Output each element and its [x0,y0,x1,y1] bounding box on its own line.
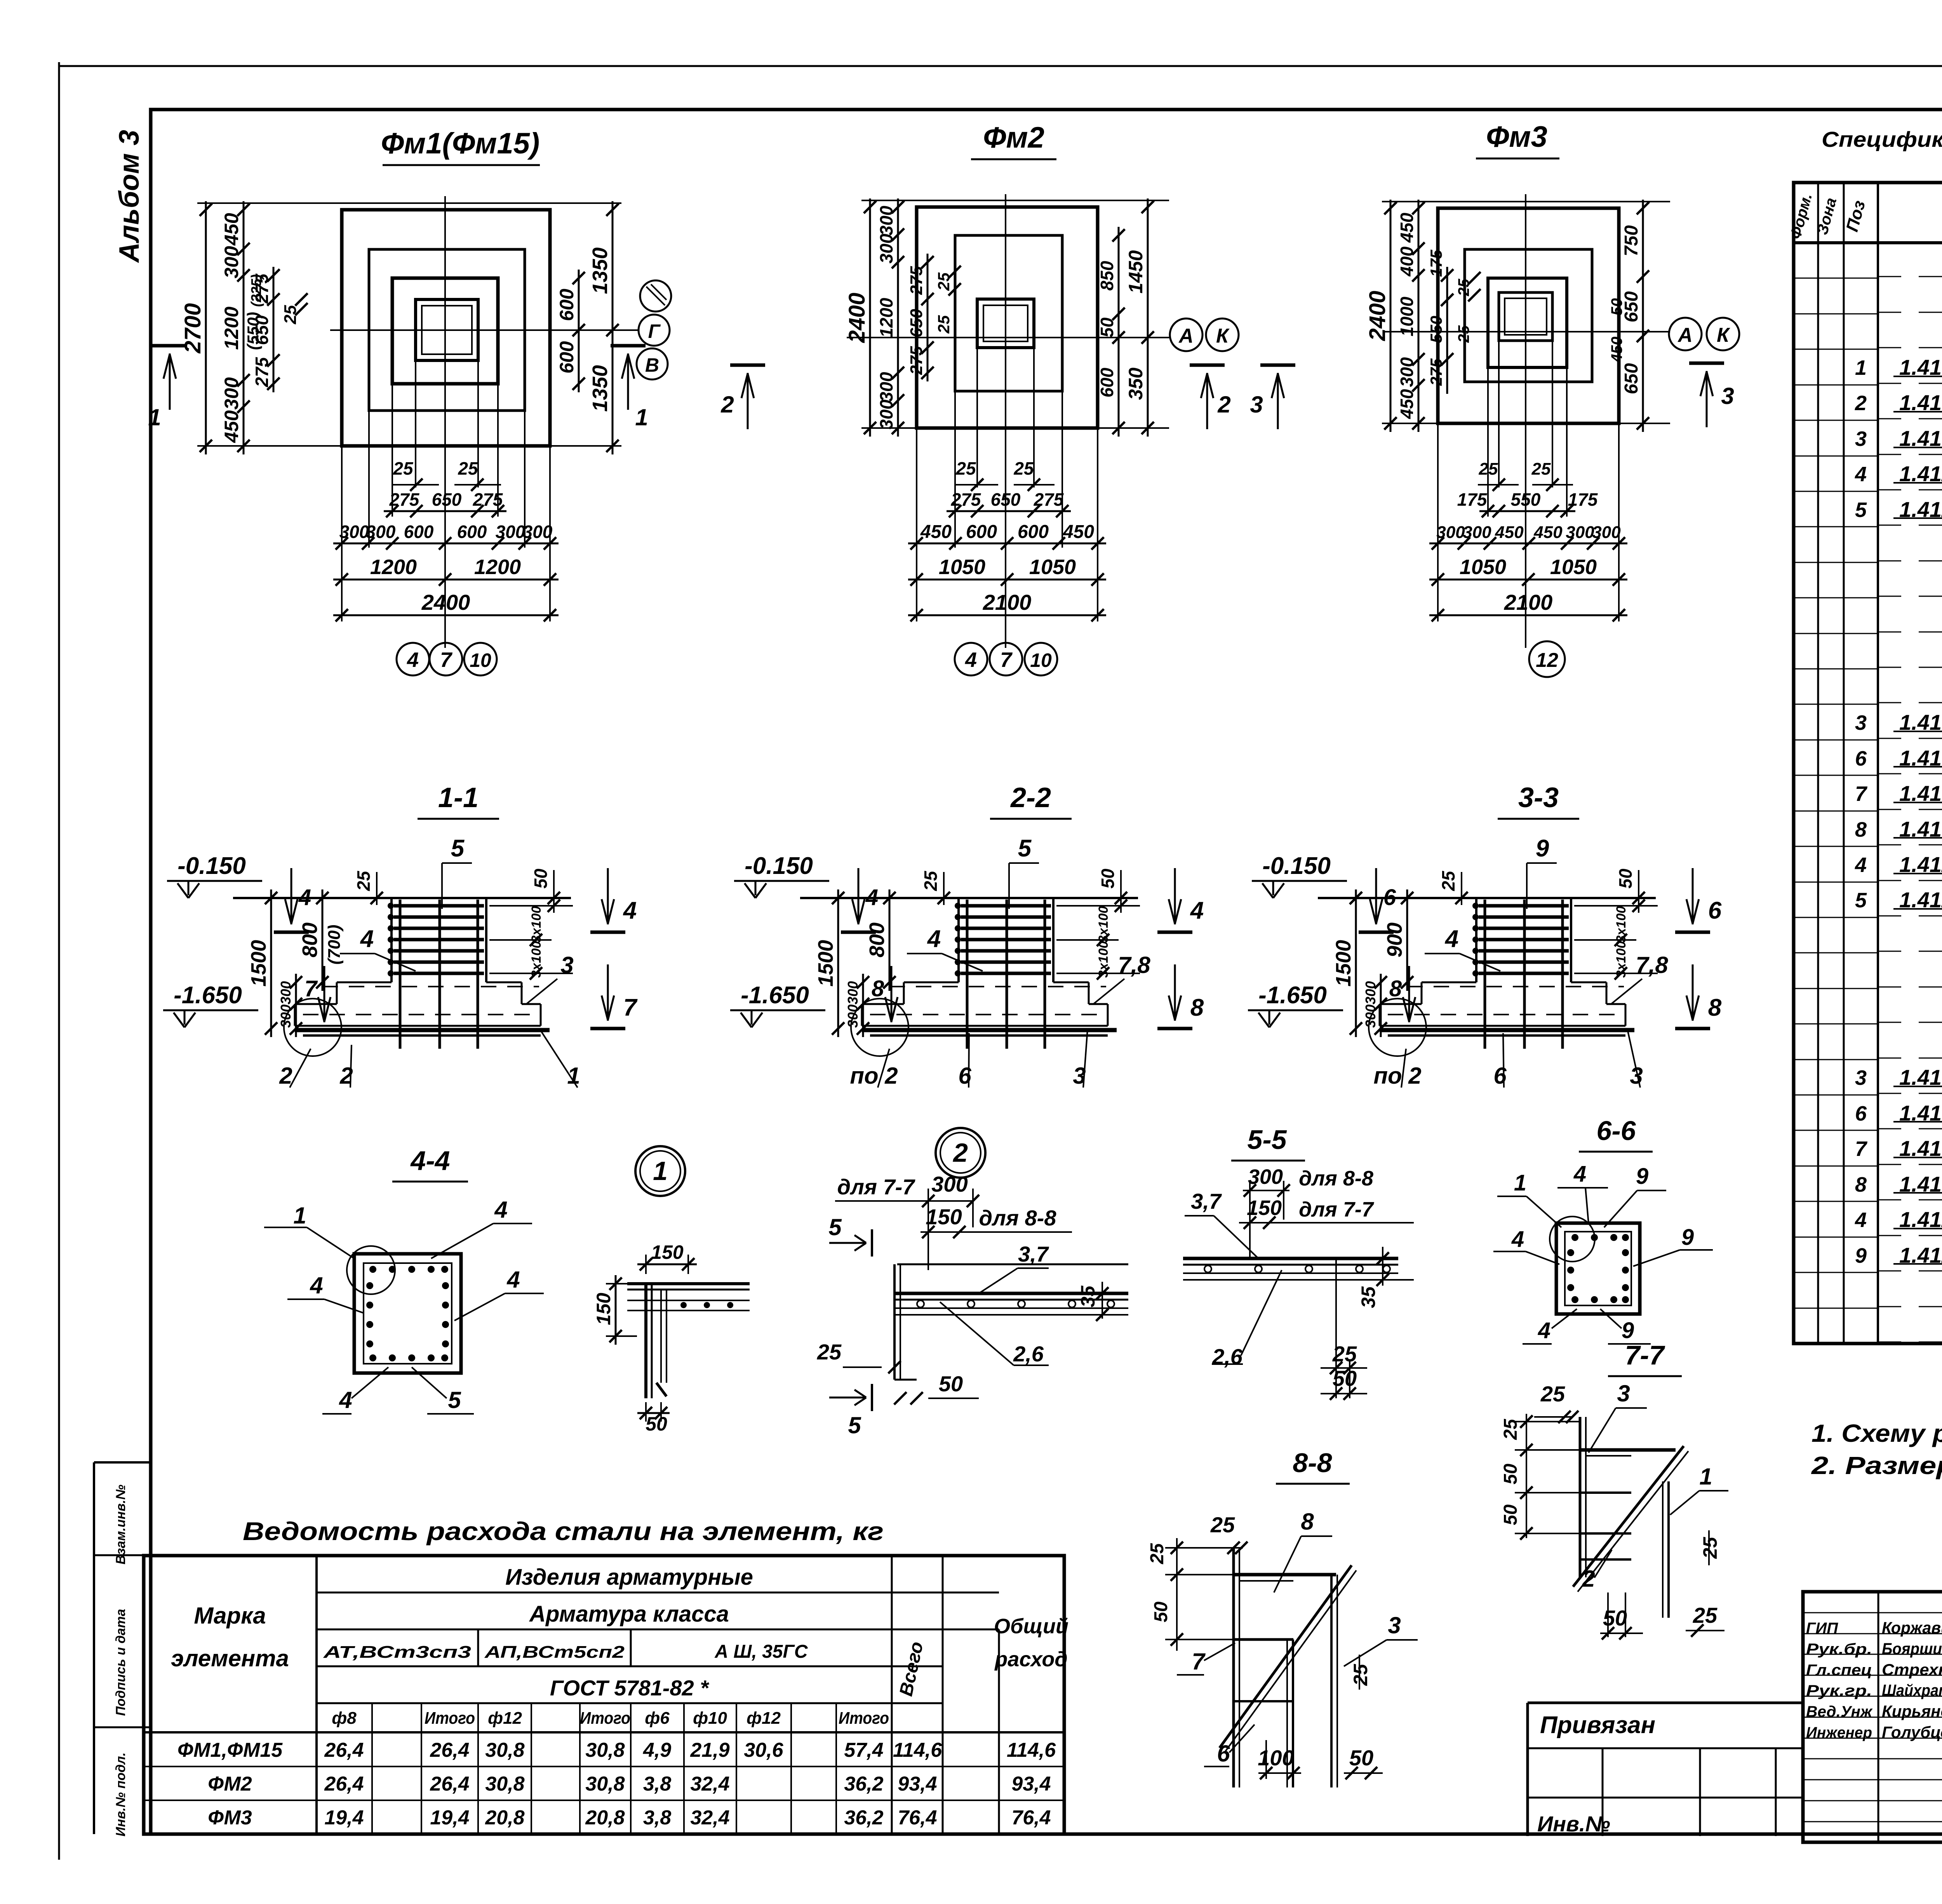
spec row 15 [1794,740,1878,741]
svg-text:2100: 2100 [983,590,1032,614]
section 3-3 right extension lines [1574,905,1658,907]
spec row 14 [1794,704,1878,705]
detail 6-6 outer box [1556,1223,1640,1314]
spec row 28 [1794,1201,1878,1202]
plan FM2 section marker 2 right [1206,373,1208,429]
svg-text:5: 5 [848,1412,861,1438]
svg-text:650: 650 [432,489,462,510]
svg-text:26,4: 26,4 [430,1739,469,1761]
svg-text:-0.150: -0.150 [1262,853,1331,879]
svg-text:26,4: 26,4 [324,1773,364,1795]
svg-text:32,4: 32,4 [690,1807,729,1829]
section 3-3 column rebars [1484,900,1486,1049]
section 1-1 dim 300 300 [295,974,297,1037]
plan FM2 bottom dim 1050-1050 [908,579,1106,581]
svg-text:50: 50 [1349,1746,1373,1770]
svg-text:Итого: Итого [580,1709,630,1728]
plan FM1 right dim 1350-1350 [612,201,614,454]
svg-text:300: 300 [1248,1165,1283,1189]
svg-text:Итого: Итого [839,1709,889,1728]
section 1-1 dim 1500 [270,889,272,1037]
section 2-2 marker bottom right 8 [1174,964,1176,1021]
svg-text:Г: Г [648,320,661,342]
svg-text:150: 150 [593,1293,614,1325]
plan FM3 bottom dim 1050-1050 [1429,579,1627,581]
svg-text:Бояршинов: Бояршинов [1882,1639,1942,1658]
svg-text:7: 7 [1000,648,1013,672]
steel table outer frame [144,1556,1064,1834]
plan FM1 left dim 2700 [205,201,207,454]
plan FM1 bottom extension line [197,445,621,447]
svg-text:3: 3 [1855,1066,1867,1089]
svg-text:300: 300 [523,522,553,542]
steel table vertical lines [315,1556,318,1834]
detail 4-4 outer box [354,1254,461,1373]
section 3-3 marker top right 6 [1692,868,1694,924]
plan FM2 bottom grid circles 4 7 10 [955,643,987,675]
plan FM1 bottom dim 2400 [333,614,559,616]
svg-text:4: 4 [1855,463,1867,486]
plan FM1 section marker 1 right [627,353,629,410]
section 1-1 marker top right 4 [607,868,609,924]
svg-text:Голубцова: Голубцова [1882,1723,1942,1741]
svg-text:-0.150: -0.150 [177,853,246,879]
svg-text:35: 35 [1357,1286,1379,1308]
section 3-3 dim 300 300 [1380,974,1382,1037]
svg-text:36,2: 36,2 [844,1807,883,1829]
svg-text:450: 450 [221,213,242,246]
detail 7-7 rungs [1580,1448,1676,1452]
svg-text:275: 275 [907,266,926,295]
plan FM3 column [1499,292,1552,341]
svg-text:30,8: 30,8 [585,1773,625,1795]
svg-text:ф10: ф10 [693,1709,727,1728]
spec row 10 [1794,562,1878,563]
detail 6-6 corner circle [1550,1217,1595,1262]
section 2-2 footing bottom slab [862,1003,904,1005]
plan FM2 column [977,299,1034,348]
detail 2 arrow 5 top [829,1242,866,1244]
section 3-3 marker top left [1375,868,1377,924]
spec row 16 [1794,775,1878,776]
svg-text:3,7: 3,7 [1191,1189,1222,1213]
svg-text:50: 50 [1608,298,1625,316]
plan FM3 right chain 750-650 [1642,200,1644,432]
plan FM3 bottom dim 300-300-450-450-300-300 [1429,543,1627,545]
plan FM2 left chain 275-650-275 [927,254,929,381]
detail 8-8 rungs [1234,1573,1336,1577]
section 2-2 footing middle step [904,982,959,983]
plan FM1 bottom dim 1200-1200 [333,579,559,581]
svg-text:4: 4 [339,1387,352,1413]
svg-text:19,4: 19,4 [324,1807,364,1829]
svg-text:8: 8 [872,976,884,1001]
svg-text:32,4: 32,4 [690,1773,729,1795]
svg-text:Марка: Марка [194,1603,266,1629]
svg-text:1450: 1450 [1125,250,1147,293]
svg-text:5: 5 [828,1214,842,1240]
svg-text:4: 4 [1511,1227,1524,1252]
svg-text:900: 900 [1383,922,1406,957]
svg-text:50: 50 [1151,1601,1171,1622]
svg-text:7: 7 [1855,782,1868,806]
svg-text:275: 275 [907,346,926,375]
svg-text:Привязан: Привязан [1540,1712,1655,1739]
svg-text:750: 750 [1621,225,1642,256]
svg-text:1: 1 [653,1156,668,1186]
svg-text:3х100: 3х100 [1096,906,1111,943]
svg-text:450: 450 [920,522,952,542]
svg-text:7-7: 7-7 [1625,1340,1665,1370]
svg-text:275: 275 [389,489,420,510]
svg-text:36,2: 36,2 [844,1773,883,1795]
svg-text:Подпись и дата: Подпись и дата [113,1609,128,1716]
svg-text:2: 2 [1855,392,1867,415]
svg-text:4: 4 [927,926,941,952]
section 3-3 footing bottom slab [1380,1003,1422,1005]
svg-text:Взам.инв.№: Взам.инв.№ [113,1485,128,1565]
svg-text:3: 3 [1855,427,1867,451]
svg-text:30,8: 30,8 [585,1739,625,1761]
svg-text:300: 300 [366,522,396,542]
svg-text:1050: 1050 [1550,555,1597,579]
svg-text:3х100: 3х100 [1614,906,1629,943]
detail 2 arrow 5 bottom [829,1397,866,1399]
plan FM1 inner square [392,278,498,384]
svg-text:(700): (700) [325,925,344,965]
svg-text:35: 35 [1077,1285,1099,1307]
svg-text:114,6: 114,6 [1007,1739,1056,1761]
spec row 25 [1794,1095,1878,1096]
svg-text:600: 600 [457,522,487,542]
svg-text:Коржавина: Коржавина [1882,1619,1942,1637]
svg-text:2: 2 [1217,392,1230,418]
svg-text:50: 50 [1098,868,1118,889]
svg-text:175: 175 [1427,249,1445,277]
spec table column line [1843,183,1845,1344]
svg-text:Рук.гр.: Рук.гр. [1806,1682,1872,1699]
svg-text:ФМ3: ФМ3 [208,1807,252,1829]
svg-text:1: 1 [1699,1464,1712,1490]
svg-text:1: 1 [148,404,161,430]
svg-text:7: 7 [1855,1137,1868,1161]
svg-text:650: 650 [991,489,1021,510]
svg-text:А: А [1677,324,1693,346]
svg-text:25: 25 [393,458,414,479]
svg-text:9: 9 [1681,1225,1694,1250]
plan FM2 bottom dim 450-600-600-450 [908,543,1106,545]
section 2-2 marker top right 4 [1174,868,1176,924]
svg-text:2: 2 [1582,1566,1595,1592]
steel table header lines [317,1592,999,1594]
svg-text:50: 50 [939,1371,963,1396]
section 2-2 callout circle [851,999,908,1056]
svg-text:550: 550 [1511,489,1541,510]
svg-text:4,9: 4,9 [643,1739,671,1761]
section 2-2 right extension lines [1056,905,1140,907]
svg-text:300: 300 [496,522,526,542]
section 2-2 column body [957,898,960,982]
svg-text:600: 600 [556,341,578,374]
section 1-1 column rebars [399,900,402,1049]
svg-text:Ведомость расхода стали на эле: Ведомость расхода стали на элемент, кг [243,1517,884,1545]
svg-text:3,8: 3,8 [643,1807,671,1829]
svg-text:2: 2 [279,1063,292,1089]
svg-text:275: 275 [473,489,503,510]
sheet outer border left line [58,62,60,1860]
plan FM2 left chain 300-300-1200-300-300 [897,198,899,437]
svg-text:5: 5 [1855,889,1867,912]
svg-text:4: 4 [310,1272,323,1298]
svg-text:7,8: 7,8 [1118,952,1150,978]
spec row 24 [1794,1059,1878,1060]
svg-text:8: 8 [1190,994,1204,1021]
svg-text:Стрехнин: Стрехнин [1882,1660,1942,1679]
svg-text:800: 800 [298,922,322,957]
svg-text:6: 6 [1383,885,1396,910]
plan FM1 bottom dim 300-300-600-600-300-300 [333,543,559,545]
section 2-2 marker top left [858,868,860,924]
section 3-3 ground line [1318,897,1656,899]
svg-text:1000: 1000 [1397,296,1417,336]
svg-text:расход: расход [994,1648,1067,1671]
svg-text:25: 25 [1479,459,1498,479]
svg-text:600: 600 [1097,367,1117,397]
detail 5-5 slab [1183,1257,1398,1260]
section 1-1 ground line [233,897,571,899]
svg-text:300: 300 [1592,523,1621,542]
svg-text:400: 400 [1397,246,1417,277]
svg-text:93,4: 93,4 [1011,1773,1051,1795]
svg-text:300: 300 [876,372,896,402]
svg-text:ф12: ф12 [747,1709,781,1728]
svg-text:Инв.№: Инв.№ [1537,1812,1610,1836]
svg-text:ф8: ф8 [332,1709,357,1728]
svg-text:275: 275 [252,357,272,387]
svg-text:150: 150 [651,1241,684,1263]
svg-text:10: 10 [470,649,491,671]
detail 2 slab [897,1264,1128,1265]
svg-text:25: 25 [955,458,976,479]
svg-text:50: 50 [1500,1464,1521,1485]
svg-text:1350: 1350 [588,365,612,412]
svg-text:по 2: по 2 [850,1063,898,1089]
section 1-1 marker top left [291,868,292,924]
svg-text:1050: 1050 [1460,555,1506,579]
plan FM1 right dim 600-600 [578,270,580,392]
spec row 3 [1794,313,1878,315]
detail 1 dim 150 top [637,1264,697,1265]
privjazan table [1528,1702,1803,1704]
svg-text:7,8: 7,8 [1636,952,1668,978]
plan FM1 grid circle V [637,348,668,379]
svg-text:150: 150 [926,1204,962,1229]
svg-text:800: 800 [865,922,889,957]
svg-text:50: 50 [1615,868,1636,889]
svg-text:К: К [1216,325,1230,347]
section 3-3 column body [1475,898,1477,982]
svg-text:Фм1(Фм15): Фм1(Фм15) [381,127,540,160]
svg-text:25: 25 [1531,459,1551,479]
spec row 21 [1794,952,1878,954]
svg-text:9: 9 [1636,1164,1648,1189]
spec row 19 [1794,882,1878,883]
plan FM1 bottom dim 275-650-275 [384,510,506,512]
svg-text:3: 3 [1250,392,1263,418]
section 2-2 ground line [800,897,1138,899]
svg-text:650: 650 [907,309,926,338]
svg-text:5: 5 [448,1387,461,1413]
left vertical strip with stamps [93,1462,95,1834]
section 1-1 marker bottom right 7 [607,964,609,1021]
svg-text:1500: 1500 [1332,940,1355,987]
spec row 29 [1794,1237,1878,1238]
svg-text:25: 25 [1147,1543,1168,1565]
section 2-2 dashed concrete lines [889,986,1106,987]
svg-text:25: 25 [353,870,374,891]
plan FM3 top extension line [1382,201,1670,202]
svg-text:450: 450 [1495,523,1524,542]
section 1-1 right extension lines [489,905,573,907]
detail 4-4 inner box [364,1263,452,1364]
svg-text:2100: 2100 [1504,590,1553,614]
svg-text:275: 275 [951,489,981,510]
svg-text:4: 4 [1573,1161,1586,1187]
svg-text:50: 50 [1097,317,1117,338]
plan FM2 bottom dim 2100 [908,614,1106,616]
svg-text:1050: 1050 [1029,555,1076,579]
svg-text:300: 300 [845,981,861,1004]
svg-text:550: 550 [1427,316,1445,343]
svg-text:600: 600 [966,522,997,542]
svg-text:1: 1 [635,404,648,430]
spec row 31 [1794,1308,1878,1309]
svg-text:6: 6 [1493,1063,1507,1089]
spec table column line [1877,183,1879,1344]
spec row 9 [1794,526,1878,527]
spec row 7 [1794,456,1878,457]
svg-text:4: 4 [1538,1318,1550,1343]
svg-text:300: 300 [221,377,242,410]
plan FM2 section marker 3 right [1277,373,1279,429]
plan FM3 bottom extension lines [1437,423,1439,621]
svg-text:А: А [1178,325,1194,347]
plan FM2 top extension line [861,200,1169,201]
svg-text:Итого: Итого [425,1709,475,1728]
svg-text:300: 300 [1463,523,1491,542]
plan FM2 bottom dim 275-650-275 [947,510,1071,512]
svg-text:114,6: 114,6 [893,1739,942,1761]
svg-text:300: 300 [1363,981,1378,1004]
svg-text:12: 12 [1536,649,1558,672]
svg-text:2400: 2400 [1365,291,1390,341]
section 1-1 dim 800 [322,889,324,991]
svg-text:30,8: 30,8 [485,1773,524,1795]
svg-text:4: 4 [360,926,374,952]
section 2-2 marker bottom left [891,966,893,1022]
spec table header row [1794,241,1942,244]
svg-text:4: 4 [407,648,419,672]
detail 7-7 diagonal [1573,1446,1684,1587]
svg-text:Фм3: Фм3 [1486,120,1547,153]
svg-text:4: 4 [1190,897,1204,924]
svg-text:-1.650: -1.650 [741,982,809,1009]
svg-text:3: 3 [560,952,573,978]
svg-text:76,4: 76,4 [898,1807,937,1829]
plan FM3 left chain 275-550 [1446,267,1448,394]
svg-text:5: 5 [1855,498,1867,522]
plan FM2 right chain 1450-950 [1147,198,1149,437]
section 3-3 dim 1500 [1355,889,1357,1037]
svg-text:ф6: ф6 [645,1709,670,1728]
detail 1 dim 150 left [615,1275,617,1345]
detail 1 dim 50 bottom [637,1412,670,1414]
svg-text:-1.650: -1.650 [1258,982,1327,1009]
detail callout 1 circle [635,1146,685,1196]
detail 7-7 right verticals [1667,1481,1670,1618]
spec row 11 [1794,597,1878,599]
spec table column line [1817,183,1819,1344]
svg-text:Альбом 3: Альбом 3 [114,130,145,263]
svg-text:25: 25 [1350,1664,1371,1686]
plan FM3 outer rect [1438,208,1619,423]
svg-text:1-1: 1-1 [438,782,479,813]
section 1-1 marker bottom left [324,966,325,1022]
svg-text:4: 4 [1855,853,1867,877]
svg-text:3,7: 3,7 [1018,1242,1049,1266]
svg-text:Инв.№ подл.: Инв.№ подл. [113,1753,128,1837]
svg-text:ФМ2: ФМ2 [208,1773,252,1795]
svg-text:Общий: Общий [994,1615,1068,1638]
svg-text:8: 8 [1301,1509,1314,1535]
svg-text:450: 450 [1063,522,1094,542]
spec table outer frame [1794,183,1942,1344]
plan FM1 axes [444,196,446,648]
section 3-3 footing middle step [1422,982,1476,983]
svg-text:ГИП: ГИП [1806,1620,1838,1637]
svg-text:8: 8 [1855,1173,1867,1196]
title block staff columns [1878,1592,1879,1842]
svg-text:300: 300 [876,233,896,263]
svg-text:1500: 1500 [247,940,270,987]
svg-text:300: 300 [1436,523,1465,542]
section 3-3 dim 900 [1406,889,1408,991]
detail 2 left verticals [893,1264,896,1380]
plan FM2 middle rect [955,235,1062,391]
detail 6-6 rebar dots [1571,1234,1578,1241]
svg-text:6-6: 6-6 [1596,1116,1636,1146]
detail 4-4 corner circle [347,1246,395,1294]
svg-text:25: 25 [1210,1512,1235,1537]
plan FM1 left dim chain 450-300-1200-300-450 [243,201,245,454]
svg-text:57,4: 57,4 [844,1739,883,1761]
svg-text:9: 9 [1855,1244,1867,1267]
svg-text:1: 1 [1514,1170,1526,1196]
svg-text:(225): (225) [248,274,264,307]
svg-text:300: 300 [1397,357,1417,387]
svg-text:по 2: по 2 [1373,1063,1421,1089]
spec row 23 [1794,1023,1878,1025]
detail callout 2 circle [936,1128,985,1178]
svg-text:25: 25 [934,315,953,334]
title block outer frame [1803,1592,1942,1842]
svg-text:450: 450 [1397,212,1417,243]
detail 1 slab lines [627,1282,750,1285]
plan FM1 outer square [342,210,550,446]
svg-text:А Ш, 35ГС: А Ш, 35ГС [714,1641,808,1662]
svg-text:3х100: 3х100 [529,906,544,943]
plan FM3 section marker 3 right [1706,371,1708,427]
